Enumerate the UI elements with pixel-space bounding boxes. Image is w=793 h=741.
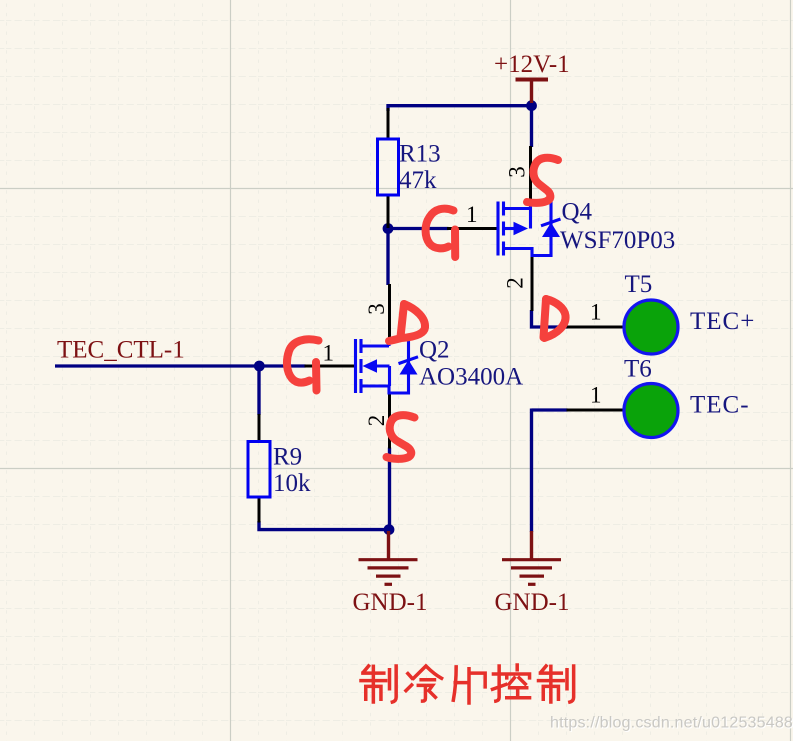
resistor R9 <box>248 442 270 498</box>
svg-text:R13: R13 <box>399 141 441 168</box>
pin R13-1 stub <box>387 108 390 140</box>
wire Q4 drain corner to T5 pin <box>532 310 568 327</box>
svg-text:GND-1: GND-1 <box>495 589 570 616</box>
annotation S at Q4 pin3 <box>527 158 558 203</box>
char 制 (2) <box>539 666 574 702</box>
node +12V junction <box>526 100 537 111</box>
char 冷 <box>406 666 442 701</box>
pin Q4-2 lead <box>531 255 534 311</box>
svg-text:Q4: Q4 <box>562 199 593 226</box>
svg-text:1: 1 <box>466 202 478 227</box>
svg-text:3: 3 <box>505 166 530 178</box>
wire TEC junction down to R9 <box>257 365 260 416</box>
pin R9-2 stub <box>258 497 261 523</box>
connector T5 <box>624 300 678 354</box>
char 片 <box>453 667 485 703</box>
wire T6 corner down to ground 2 <box>530 409 533 533</box>
wire T6 horizontal <box>532 408 568 411</box>
annotation D at Q4 pin2 / T5 <box>544 299 547 338</box>
annotation G at Q2 gate <box>287 339 319 382</box>
svg-text:WSF70P03: WSF70P03 <box>560 227 675 254</box>
svg-text:GND-1: GND-1 <box>353 589 428 616</box>
svg-text:T6: T6 <box>624 356 652 383</box>
wire top: R13 top to +12V junction <box>388 106 532 111</box>
pin numbers <box>323 166 602 426</box>
char 制 (1) <box>361 666 396 702</box>
pin Q4-1 gate lead <box>447 227 497 230</box>
svg-text:47k: 47k <box>399 167 437 194</box>
svg-text:2: 2 <box>364 415 389 427</box>
pin Q2-1 gate lead <box>305 365 356 368</box>
svg-text:TEC_CTL-1: TEC_CTL-1 <box>57 337 185 364</box>
pin Q2-3 lead <box>388 284 391 340</box>
annotation D at Q2 pin3 <box>401 304 405 337</box>
transistor Q4 <box>498 202 561 256</box>
wire TEC_CTL-1 horizontal <box>55 364 306 367</box>
junction dots <box>254 100 537 535</box>
svg-text:2: 2 <box>503 277 528 289</box>
svg-text:1: 1 <box>590 300 602 325</box>
pin Q4-3 lead <box>529 146 532 202</box>
wire +12V junction down to Q4 pin3 <box>530 104 533 147</box>
svg-text:T5: T5 <box>625 271 653 298</box>
pin T6-1 lead <box>567 409 624 412</box>
char 控 <box>493 665 530 701</box>
svg-text:TEC-: TEC- <box>690 392 750 419</box>
pin T5-1 lead <box>567 326 624 329</box>
svg-text:3: 3 <box>364 303 389 315</box>
power +12V-1 symbol <box>516 80 549 104</box>
svg-text:+12V-1: +12V-1 <box>494 51 570 78</box>
svg-text:R9: R9 <box>273 444 302 471</box>
pin R9-1 stub <box>258 414 261 442</box>
transistor Q2 <box>356 339 419 393</box>
ground GND-1 left <box>359 531 418 584</box>
resistor R13 <box>378 139 399 195</box>
svg-text:10k: 10k <box>273 470 311 497</box>
svg-text:TEC+: TEC+ <box>690 308 755 335</box>
svg-text:1: 1 <box>323 341 335 366</box>
svg-text:Q2: Q2 <box>419 337 450 364</box>
svg-text:AO3400A: AO3400A <box>419 364 523 391</box>
ground GND-1 right <box>502 531 561 584</box>
pin Q2-2 lead <box>388 393 391 449</box>
wire Q2 source down to ground junction <box>388 448 391 530</box>
annotation G at Q4 gate <box>426 209 454 249</box>
connector T6 <box>624 384 678 438</box>
wire R9 bottom to ground junction <box>259 521 389 530</box>
wire R13 junction to Q4 gate pin <box>387 227 449 230</box>
node TEC_CTL/R9 junction <box>254 361 265 372</box>
annotation S at Q2 pin2 <box>387 415 415 459</box>
watermark <box>550 715 793 733</box>
wire R13 bottom junction down to Q2 pin3 <box>386 227 389 285</box>
pin R13-2 stub <box>387 195 390 229</box>
node R13/Q4 gate junction <box>383 223 394 234</box>
svg-text:https://blog.csdn.net/u0125354: https://blog.csdn.net/u012535488 <box>550 715 793 732</box>
svg-text:1: 1 <box>590 383 602 408</box>
node ground junction <box>384 524 395 535</box>
